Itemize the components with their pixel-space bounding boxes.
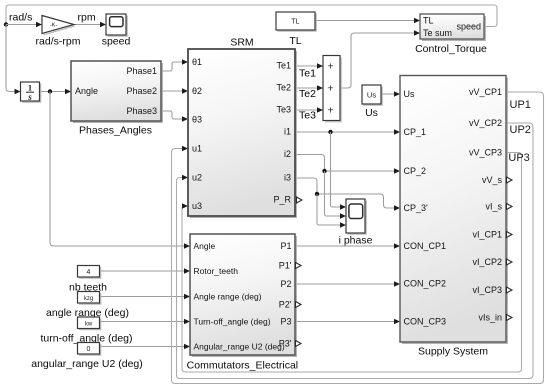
svg-text:0: 0: [87, 346, 91, 353]
wire Supply vV_CP1 -> SRM u1 (UP1 loop): [172, 92, 544, 384]
port P1' unconnected output: [296, 263, 302, 269]
svg-text:TL: TL: [291, 19, 299, 26]
wire speed feedback loop (Control_Torque.speed -> rad/s): [6, 5, 497, 27]
wire integrator -> Phases_Angles Angle: [40, 89, 72, 95]
svg-text:Phase1: Phase1: [126, 66, 157, 76]
svg-text:1: 1: [28, 83, 32, 93]
svg-text:rad/s-rpm: rad/s-rpm: [36, 36, 81, 48]
block Phases_Angles: [71, 61, 162, 137]
port P2' unconnected output: [296, 302, 302, 308]
svg-text:TL: TL: [289, 35, 301, 47]
svg-text:kzg: kzg: [84, 296, 93, 302]
block Supply System: [400, 76, 507, 358]
node i3 junction: [315, 192, 319, 196]
svg-text:kw: kw: [85, 322, 93, 328]
port vI_CP2 unconnected output: [507, 259, 513, 265]
svg-text:CP_3': CP_3': [404, 203, 429, 213]
svg-text:θ3: θ3: [192, 114, 202, 124]
svg-text:Te2: Te2: [299, 88, 316, 100]
svg-text:Te3: Te3: [276, 104, 291, 114]
svg-text:4: 4: [87, 269, 91, 276]
svg-text:CON_CP1: CON_CP1: [404, 241, 447, 251]
svg-text:θ2: θ2: [192, 86, 202, 96]
svg-text:Te sum: Te sum: [423, 28, 452, 38]
svg-text:Te1: Te1: [276, 60, 291, 70]
svg-text:UP3: UP3: [508, 152, 529, 164]
svg-text:u3: u3: [192, 201, 202, 211]
wire sum -> Control_Torque Te sum: [340, 30, 420, 88]
svg-text:Us: Us: [367, 91, 376, 100]
svg-text:rad/s: rad/s: [9, 12, 32, 24]
svg-text:P1': P1': [279, 261, 292, 271]
port vI_CP1 unconnected output: [507, 232, 513, 238]
svg-text:speed: speed: [456, 22, 481, 32]
svg-text:vV_s: vV_s: [482, 175, 503, 185]
svg-text:CON_CP3: CON_CP3: [404, 316, 447, 326]
svg-text:Us: Us: [365, 107, 378, 119]
wire SRM Te2 -> sum: [295, 85, 323, 91]
svg-text:P3: P3: [280, 317, 291, 327]
node integrator output junction: [48, 89, 52, 93]
svg-text:angular_range U2 (deg): angular_range U2 (deg): [31, 358, 143, 370]
svg-text:vV_CP3: vV_CP3: [469, 147, 502, 157]
svg-text:i2: i2: [284, 149, 291, 159]
svg-text:Angular_range U2 (deg): Angular_range U2 (deg): [194, 342, 285, 352]
svg-text:u1: u1: [192, 143, 202, 153]
svg-text:vI_CP2: vI_CP2: [472, 257, 502, 267]
constant TL: [276, 12, 316, 47]
port P_R unconnected output: [297, 197, 303, 203]
svg-text:Rotor_teeth: Rotor_teeth: [194, 266, 239, 276]
svg-text:rpm: rpm: [78, 12, 96, 24]
wire TL -> Control_Torque TL: [315, 18, 420, 24]
wire Supply vV_CP3 -> SRM u3 (UP3 loop): [182, 153, 522, 373]
svg-text:Angle: Angle: [75, 86, 98, 96]
wire Supply vV_CP2 -> SRM u2 (UP2 loop): [177, 123, 534, 379]
svg-text:Turn-off_angle (deg): Turn-off_angle (deg): [194, 317, 271, 327]
wire turn-off_angle -> Turn-off_angle (deg): [100, 319, 191, 325]
svg-text:SRM: SRM: [230, 37, 253, 49]
svg-text:CP_1: CP_1: [404, 127, 427, 137]
svg-text:TL: TL: [423, 16, 434, 26]
wire Phase2 -> SRM theta2: [161, 88, 188, 94]
wire angle range -> Angle range (deg): [100, 294, 191, 300]
scope i phase: [339, 199, 373, 247]
block Control_Torque: [415, 14, 487, 55]
port P3' unconnected output: [296, 341, 302, 347]
wire Commutators P2 -> Supply CON_CP2: [295, 281, 400, 287]
svg-text:Us: Us: [404, 89, 415, 99]
node i2 junction: [322, 169, 326, 173]
node i1 junction: [328, 130, 332, 134]
constant 0 (angular_range U2): [31, 343, 143, 370]
block SRM: [188, 37, 296, 218]
svg-text:P2: P2: [280, 279, 291, 289]
scope speed: [102, 14, 131, 48]
wire Us -> Supply Us: [381, 91, 400, 97]
constant kw (turn-off angle): [40, 317, 132, 344]
svg-text:vI_CP1: vI_CP1: [472, 229, 502, 239]
svg-text:θ1: θ1: [192, 57, 202, 67]
wire i3 junction -> i phase scope in3: [317, 194, 346, 228]
svg-text:speed: speed: [102, 36, 131, 48]
wire gain -> speed scope, label rpm: [74, 22, 106, 28]
wire Commutators P1 -> Supply CON_CP1: [295, 243, 400, 249]
wire SRM Te1 -> sum: [295, 63, 323, 69]
svg-text:UP1: UP1: [510, 99, 531, 111]
svg-text:P2': P2': [279, 300, 292, 310]
svg-text:Te1: Te1: [299, 68, 316, 80]
integrator 1/s: [21, 82, 41, 102]
svg-text:vV_CP1: vV_CP1: [469, 87, 502, 97]
wire rad/s -> gain: [6, 22, 42, 28]
port vV_s unconnected output: [507, 177, 513, 183]
wire Phase1 -> SRM theta1: [161, 59, 188, 71]
svg-text:CON_CP2: CON_CP2: [404, 278, 447, 288]
gain rad/s-rpm: [36, 16, 81, 48]
constant kzg (angle range): [46, 292, 129, 319]
node rad/s junction: [4, 22, 8, 26]
svg-text:i3: i3: [284, 173, 291, 183]
wire i2 junction -> i phase scope in2: [325, 171, 347, 219]
wire Commutators P3 -> Supply CON_CP3: [295, 319, 400, 325]
svg-text:+: +: [327, 83, 333, 95]
svg-text:Te3: Te3: [299, 110, 316, 122]
sum block Te1+Te2+Te3: [323, 56, 341, 122]
svg-text:+: +: [327, 105, 333, 117]
svg-text:vIs_in: vIs_in: [478, 312, 502, 322]
svg-text:vI_CP3: vI_CP3: [472, 285, 502, 295]
svg-text:P3': P3': [279, 339, 292, 349]
wire angular_range U2 -> Angular_range U2 (deg): [100, 344, 191, 350]
svg-text:Angle range (deg): Angle range (deg): [194, 292, 262, 302]
svg-text:Te2: Te2: [276, 82, 291, 92]
constant 4 (nb teeth): [69, 266, 107, 294]
constant Us: [362, 85, 382, 119]
svg-text:Angle: Angle: [194, 241, 216, 251]
wire nb teeth -> Rotor_teeth: [100, 268, 191, 274]
svg-text:-K-: -K-: [50, 23, 58, 29]
svg-text:i1: i1: [284, 127, 291, 137]
wire rad/s junction -> integrator: [6, 25, 21, 95]
wire SRM i2 -> Supply CP_2: [295, 155, 400, 174]
wire i1 junction -> i phase scope in1: [331, 132, 347, 210]
wire SRM i3 -> Supply CP_3': [295, 178, 400, 211]
svg-text:u2: u2: [192, 172, 202, 182]
svg-text:CP_2: CP_2: [404, 166, 427, 176]
port vI_CP3 unconnected output: [507, 287, 513, 293]
svg-text:Control_Torque: Control_Torque: [415, 43, 487, 55]
svg-text:+: +: [327, 61, 333, 73]
svg-text:Supply System: Supply System: [418, 346, 488, 358]
block Commutators_Electrical: [187, 234, 298, 371]
svg-text:Phases_Angles: Phases_Angles: [79, 125, 152, 137]
wire integrator junction -> Commutators Angle: [50, 92, 190, 249]
svg-text:UP2: UP2: [510, 124, 531, 136]
svg-text:i phase: i phase: [339, 235, 373, 247]
svg-text:s: s: [27, 92, 32, 102]
svg-text:P1: P1: [280, 241, 291, 251]
port vIs_in unconnected output: [507, 315, 513, 321]
wire Phase3 -> SRM theta3: [161, 111, 188, 122]
svg-text:Phase2: Phase2: [126, 86, 157, 96]
port vI_s unconnected output: [507, 204, 513, 210]
svg-text:P_R: P_R: [273, 195, 291, 205]
wire SRM Te3 -> sum: [295, 107, 323, 113]
wire SRM i1 -> Supply CP_1: [295, 129, 400, 135]
svg-text:vV_CP2: vV_CP2: [469, 118, 502, 128]
svg-text:Commutators_Electrical: Commutators_Electrical: [187, 359, 298, 371]
svg-text:vI_s: vI_s: [485, 201, 502, 211]
svg-text:Phase3: Phase3: [126, 106, 157, 116]
